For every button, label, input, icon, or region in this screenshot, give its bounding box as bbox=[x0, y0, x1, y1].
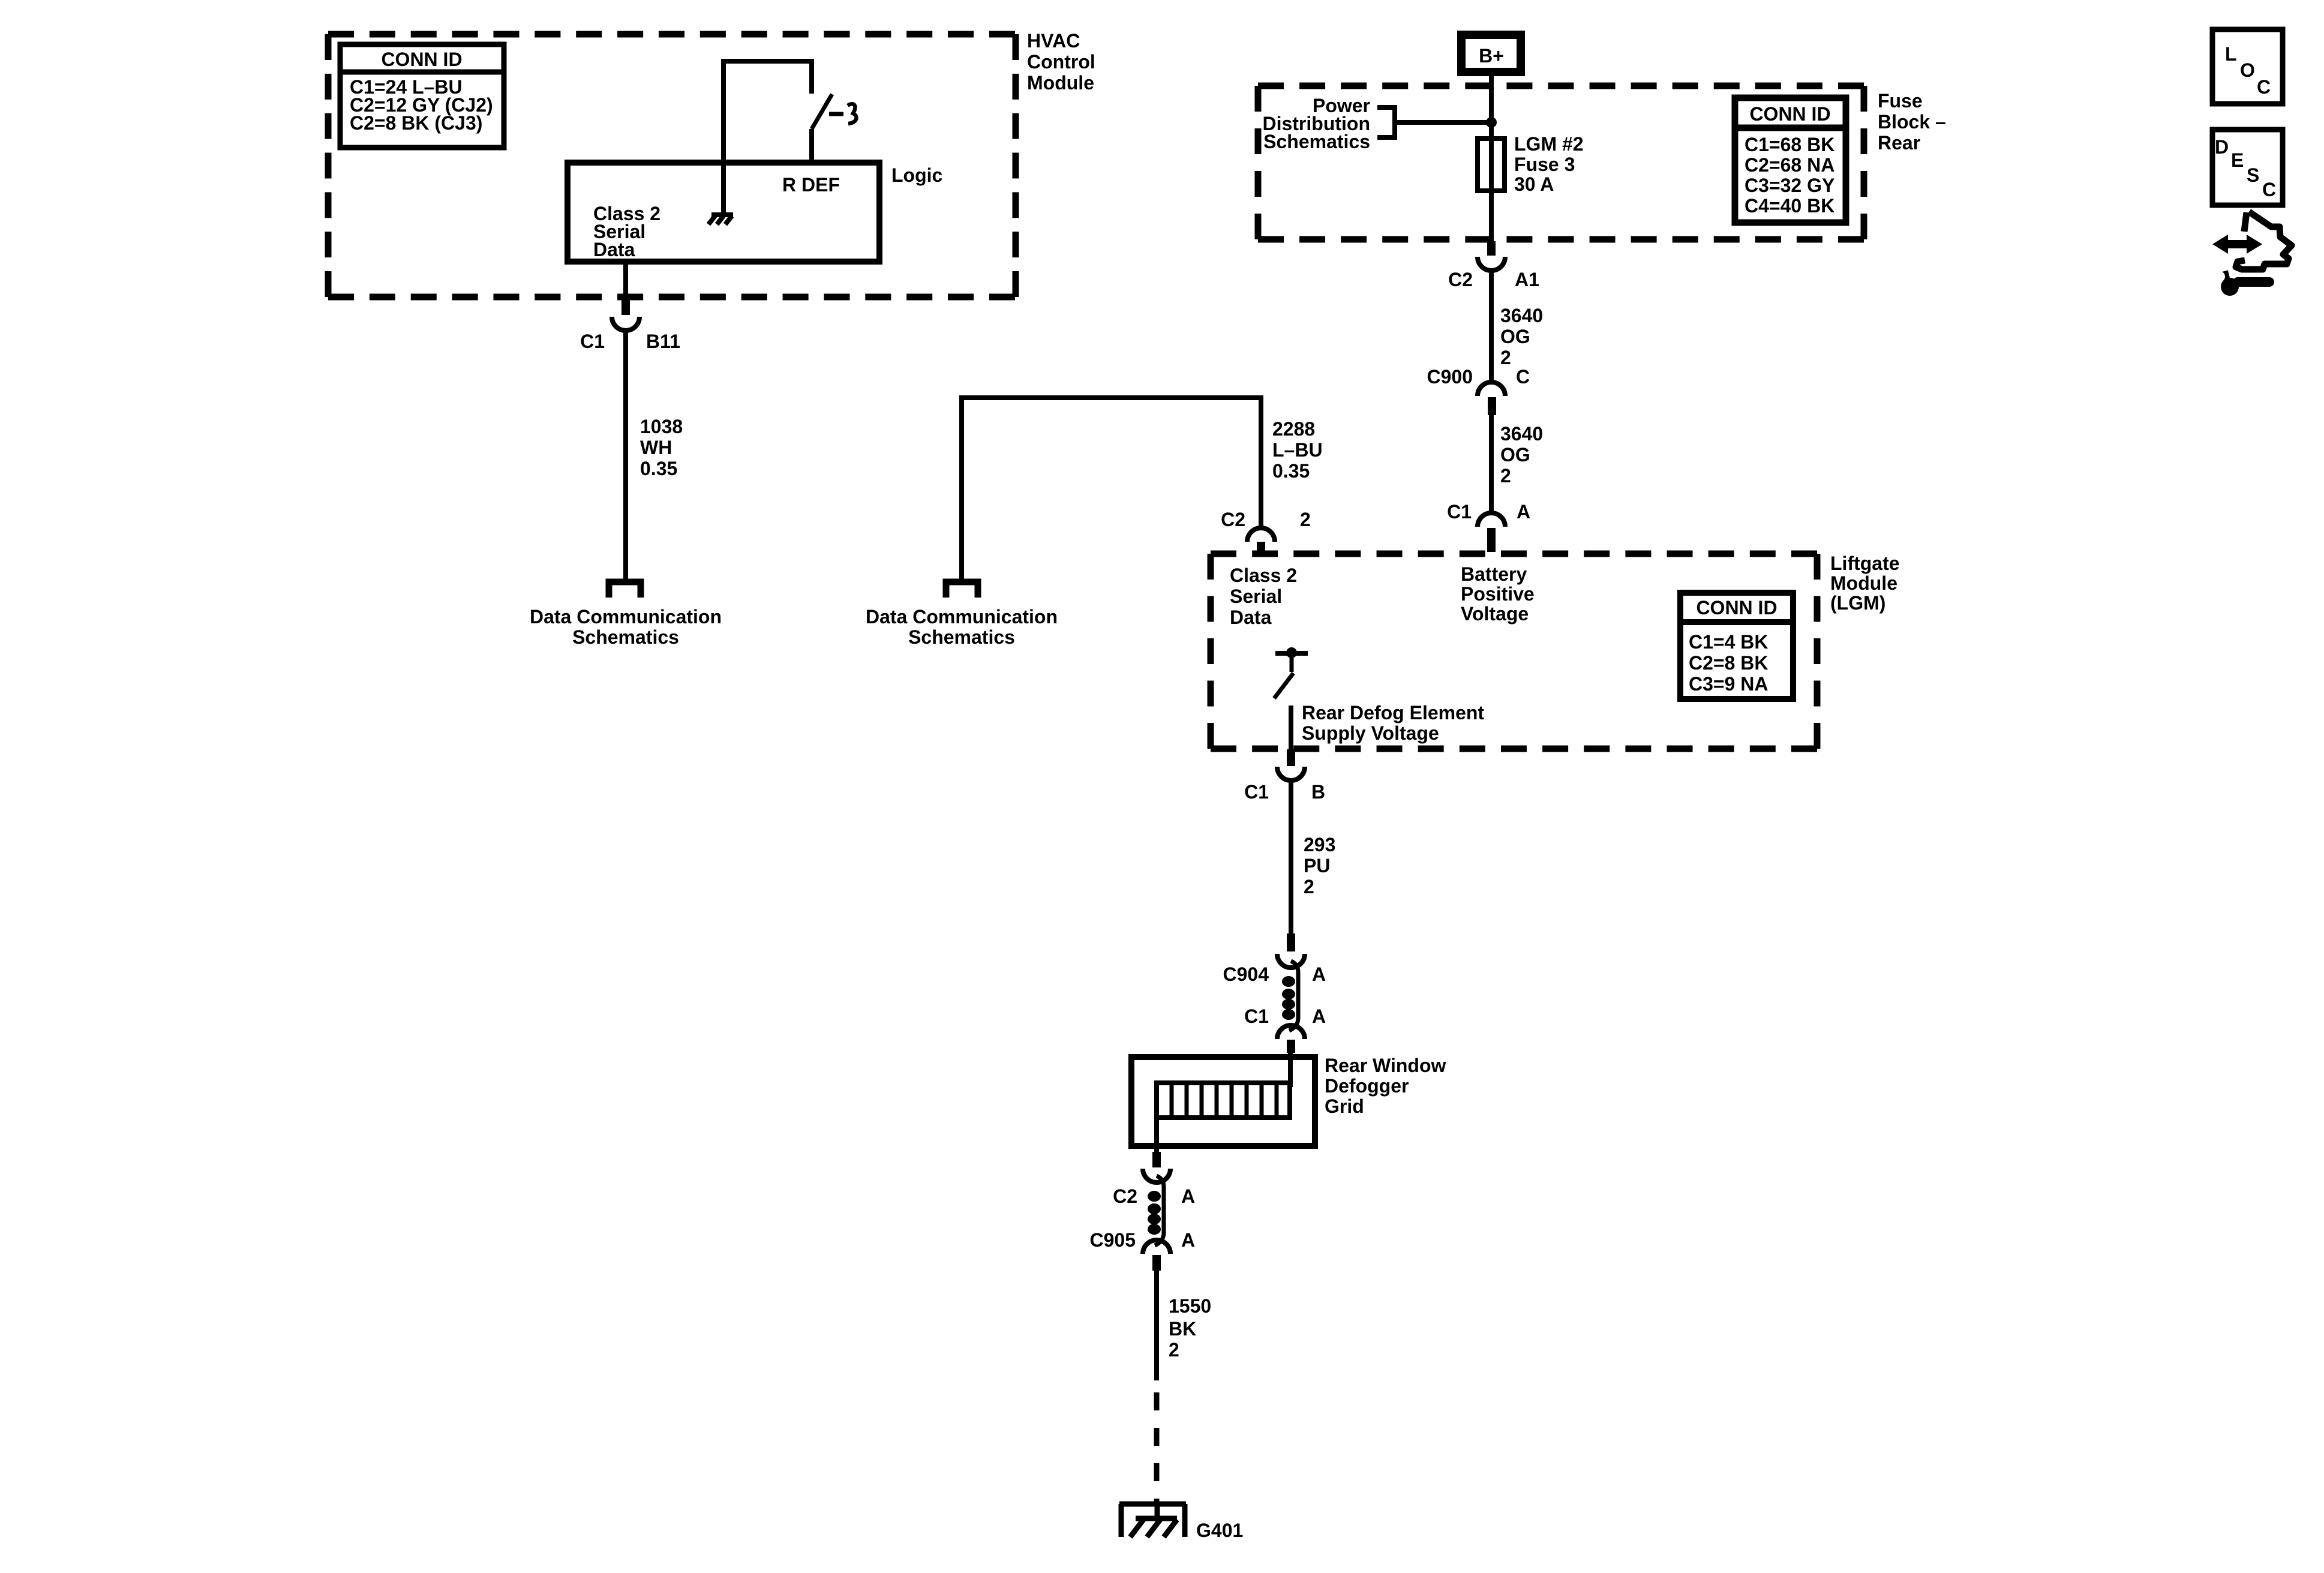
svg-text:C1=68 BK: C1=68 BK bbox=[1744, 134, 1834, 155]
wire 3640 OG 2 (lower) bbox=[1489, 415, 1494, 514]
svg-text:C1: C1 bbox=[580, 331, 605, 352]
label C1 bbox=[1244, 781, 1269, 803]
svg-text:C: C bbox=[1516, 366, 1530, 388]
svg-text:O: O bbox=[2240, 59, 2255, 81]
svg-text:C904: C904 bbox=[1223, 963, 1269, 985]
svg-text:3640: 3640 bbox=[1500, 305, 1543, 326]
wire 1038 WH 0.35 bbox=[623, 331, 628, 579]
label B11 bbox=[646, 331, 680, 352]
connector C1 B11 (pin + cup) bbox=[612, 300, 639, 331]
svg-text:G401: G401 bbox=[1196, 1520, 1243, 1541]
svg-text:C2=68 NA: C2=68 NA bbox=[1744, 154, 1834, 176]
label A bbox=[1517, 501, 1530, 523]
svg-text:0.35: 0.35 bbox=[1272, 460, 1310, 482]
svg-text:L–BU: L–BU bbox=[1272, 439, 1323, 461]
svg-text:E: E bbox=[2231, 149, 2244, 171]
svg-text:Module: Module bbox=[1027, 72, 1094, 94]
R DEF label bbox=[782, 174, 840, 196]
relay switch (liftgate internal) bbox=[1274, 653, 1308, 698]
dashed ground wire bbox=[1154, 1392, 1160, 1504]
Liftgate Module dashed box bbox=[1211, 554, 1817, 749]
svg-text:B11: B11 bbox=[646, 331, 680, 352]
fuse label bbox=[1514, 133, 1584, 195]
svg-text:C2=8 BK: C2=8 BK bbox=[1689, 652, 1768, 674]
label C2 bbox=[1448, 269, 1473, 290]
svg-text:3640: 3640 bbox=[1500, 423, 1543, 445]
connector C2 A1 (pin + cup) bbox=[1478, 241, 1505, 271]
svg-text:Schematics: Schematics bbox=[908, 626, 1015, 648]
wire 1550 BK 2 bbox=[1154, 1271, 1159, 1380]
connector C1 A (dome + pin into liftgate) bbox=[1478, 513, 1505, 552]
wire from logic box to connector C1 B11 bbox=[623, 262, 628, 301]
svg-text:B+: B+ bbox=[1479, 45, 1504, 67]
svg-text:2: 2 bbox=[1304, 876, 1314, 897]
wire out of grid element bbox=[1154, 1118, 1159, 1152]
Rear Defog Element Supply Voltage label bbox=[1302, 702, 1484, 744]
fuse LGM #2 Fuse 3 30 A bbox=[1478, 139, 1505, 191]
component view icon (part outline) bbox=[2236, 212, 2292, 269]
label 2 (pin) bbox=[1300, 509, 1311, 530]
wire loop from logic box to switch contact bbox=[723, 61, 812, 163]
svg-text:CONN ID: CONN ID bbox=[381, 49, 462, 70]
svg-text:1038: 1038 bbox=[640, 416, 683, 437]
svg-text:Data: Data bbox=[1230, 607, 1272, 628]
connector C904 A / C1 A with harness coil bbox=[1277, 933, 1305, 1053]
svg-text:Supply Voltage: Supply Voltage bbox=[1302, 722, 1439, 744]
svg-text:C2: C2 bbox=[1221, 509, 1245, 530]
LOC reference box bbox=[2212, 29, 2283, 104]
svg-text:R DEF: R DEF bbox=[782, 174, 840, 196]
CONN ID table (liftgate) bbox=[1680, 593, 1793, 699]
wire 2288 L-BU 0.35 bbox=[962, 398, 1261, 579]
wire 3640 OG 2 (upper) bbox=[1489, 271, 1494, 383]
Battery Positive Voltage label bbox=[1461, 563, 1535, 625]
svg-text:B: B bbox=[1311, 781, 1325, 803]
B+ battery feed box bbox=[1461, 35, 1521, 72]
Fuse Block - Rear label bbox=[1878, 90, 1946, 154]
ground G401 bbox=[1119, 1504, 1186, 1537]
Rear Window Defogger Grid label bbox=[1325, 1055, 1446, 1117]
svg-text:OG: OG bbox=[1500, 326, 1530, 347]
HVAC Control Module dashed box bbox=[328, 34, 1016, 297]
Fuse Block Rear dashed box bbox=[1258, 86, 1864, 239]
svg-text:(LGM): (LGM) bbox=[1830, 592, 1885, 614]
Class 2 Serial Data label (liftgate) bbox=[1230, 565, 1297, 628]
svg-text:Rear Defog Element: Rear Defog Element bbox=[1302, 702, 1484, 724]
svg-text:Fuse: Fuse bbox=[1878, 90, 1923, 112]
svg-text:Serial: Serial bbox=[1230, 586, 1282, 607]
svg-text:A: A bbox=[1517, 501, 1530, 523]
label C904 bbox=[1223, 963, 1269, 985]
svg-text:C1: C1 bbox=[1447, 501, 1472, 523]
svg-text:Battery: Battery bbox=[1461, 563, 1527, 585]
svg-text:Schematics: Schematics bbox=[1263, 131, 1370, 152]
DESC reference box bbox=[2212, 130, 2283, 205]
label G401 bbox=[1196, 1520, 1243, 1541]
junction node bbox=[1486, 117, 1497, 128]
wire from bracket to B+ feed bbox=[1395, 120, 1491, 125]
svg-text:C3=9 NA: C3=9 NA bbox=[1689, 673, 1768, 695]
Rear Window Defogger Grid box bbox=[1131, 1057, 1315, 1146]
svg-text:Voltage: Voltage bbox=[1461, 603, 1529, 625]
label C905 bbox=[1090, 1229, 1136, 1251]
svg-text:S: S bbox=[2247, 164, 2259, 186]
svg-text:C1=4 BK: C1=4 BK bbox=[1689, 631, 1768, 653]
svg-text:Grid: Grid bbox=[1325, 1095, 1364, 1117]
label C1 bbox=[1447, 501, 1472, 523]
svg-text:C: C bbox=[2257, 76, 2271, 98]
svg-text:C2: C2 bbox=[1113, 1185, 1137, 1207]
svg-text:Logic: Logic bbox=[891, 164, 942, 186]
svg-text:C2: C2 bbox=[1448, 269, 1473, 290]
svg-text:Liftgate: Liftgate bbox=[1830, 553, 1900, 574]
label C2 bbox=[1113, 1185, 1137, 1207]
logic box outline bbox=[568, 163, 879, 262]
CONN ID table (fuse block) bbox=[1735, 98, 1846, 223]
junction dot on switch bar bbox=[1286, 647, 1297, 658]
svg-text:Data Communication: Data Communication bbox=[530, 606, 722, 628]
svg-text:CONN ID: CONN ID bbox=[1749, 103, 1830, 125]
component view icon (double arrow) bbox=[2212, 235, 2262, 254]
svg-text:C1: C1 bbox=[1244, 781, 1269, 803]
svg-text:Rear Window: Rear Window bbox=[1325, 1055, 1446, 1076]
label A (C905) bbox=[1181, 1229, 1195, 1251]
svg-text:HVAC: HVAC bbox=[1027, 30, 1080, 52]
ground (HVAC internal) bbox=[708, 215, 733, 224]
label C1 bbox=[1244, 1005, 1269, 1027]
off-page terminal (left data link) bbox=[609, 582, 641, 598]
svg-text:A: A bbox=[1312, 963, 1326, 985]
svg-text:Positive: Positive bbox=[1461, 583, 1535, 605]
bracket (power distribution) bbox=[1377, 107, 1395, 137]
switch lower contact bbox=[809, 129, 814, 163]
switch position mark -3 bbox=[829, 104, 857, 124]
wire label 293 PU 2 bbox=[1304, 834, 1335, 897]
connector C2 A / C905 A with harness coil bbox=[1143, 1152, 1170, 1271]
CONN ID table (HVAC) bbox=[340, 44, 504, 148]
svg-text:Class 2: Class 2 bbox=[1230, 565, 1297, 586]
svg-text:Module: Module bbox=[1830, 572, 1897, 594]
svg-text:Fuse 3: Fuse 3 bbox=[1514, 154, 1575, 175]
label C2 (liftgate pin 2) bbox=[1221, 509, 1245, 530]
svg-text:C4=40 BK: C4=40 BK bbox=[1744, 195, 1834, 217]
wire 293 PU 2 bbox=[1289, 781, 1293, 935]
Power Distribution Schematics label bbox=[1262, 95, 1370, 152]
svg-text:PU: PU bbox=[1304, 855, 1330, 876]
wire label 3640 OG 2 bbox=[1500, 305, 1543, 368]
svg-text:WH: WH bbox=[640, 437, 672, 458]
label A (C1) bbox=[1312, 1005, 1326, 1027]
svg-text:2: 2 bbox=[1300, 509, 1311, 530]
svg-text:A: A bbox=[1181, 1185, 1195, 1207]
connector C900 C (dome + pin) bbox=[1478, 382, 1505, 415]
svg-text:30 A: 30 A bbox=[1514, 173, 1554, 195]
svg-text:L: L bbox=[2225, 43, 2237, 65]
svg-text:Data Communication: Data Communication bbox=[866, 606, 1058, 628]
label A1 bbox=[1515, 269, 1539, 290]
wire label 1038 WH 0.35 bbox=[640, 416, 683, 479]
Liftgate Module (LGM) label bbox=[1830, 553, 1900, 614]
defogger grid element (hatched) bbox=[1157, 1083, 1290, 1118]
Data Communication Schematics label (left) bbox=[530, 606, 722, 648]
wire label 2288 L-BU 0.35 bbox=[1272, 418, 1323, 482]
svg-text:Defogger: Defogger bbox=[1325, 1075, 1409, 1097]
svg-text:C1: C1 bbox=[1244, 1005, 1269, 1027]
svg-text:1550: 1550 bbox=[1169, 1295, 1211, 1317]
Logic label bbox=[891, 164, 942, 186]
svg-text:Schematics: Schematics bbox=[572, 626, 679, 648]
svg-text:LGM #2: LGM #2 bbox=[1514, 133, 1584, 155]
svg-text:Control: Control bbox=[1027, 51, 1095, 73]
svg-text:Rear: Rear bbox=[1878, 132, 1920, 154]
wire from switch to connector C1 B bbox=[1289, 706, 1293, 750]
connector C1 B (pin + cup) bbox=[1277, 749, 1305, 781]
wire into grid element bbox=[1288, 1053, 1293, 1087]
svg-text:293: 293 bbox=[1304, 834, 1335, 855]
off-page terminal (middle data link) bbox=[946, 582, 978, 598]
svg-text:Data: Data bbox=[593, 239, 635, 260]
svg-text:2: 2 bbox=[1500, 465, 1511, 487]
label C1 bbox=[580, 331, 605, 352]
svg-text:A1: A1 bbox=[1515, 269, 1539, 290]
svg-text:BK: BK bbox=[1169, 1318, 1196, 1340]
label B bbox=[1311, 781, 1325, 803]
Class 2 Serial Data label (HVAC) bbox=[593, 203, 660, 260]
svg-text:Block –: Block – bbox=[1878, 111, 1946, 133]
label C bbox=[1516, 366, 1530, 388]
svg-text:OG: OG bbox=[1500, 444, 1530, 466]
connector C2 pin 2 (dome + pin) bbox=[1247, 528, 1275, 557]
HVAC Control Module label bbox=[1027, 30, 1095, 94]
svg-text:CONN ID: CONN ID bbox=[1696, 597, 1777, 619]
svg-text:C: C bbox=[2262, 179, 2276, 200]
label A (C904) bbox=[1312, 963, 1326, 985]
svg-text:2: 2 bbox=[1500, 347, 1511, 368]
component view icon (wrench) bbox=[2214, 271, 2269, 296]
label C900 bbox=[1427, 366, 1473, 388]
wire label 3640 OG 2 (lower) bbox=[1500, 423, 1543, 487]
label A (C2) bbox=[1181, 1185, 1195, 1207]
wire B+ through fuse bbox=[1489, 76, 1494, 241]
svg-text:2: 2 bbox=[1169, 1339, 1179, 1361]
R DEF switch blade bbox=[812, 94, 832, 129]
svg-text:A: A bbox=[1181, 1229, 1195, 1251]
svg-text:0.35: 0.35 bbox=[640, 458, 677, 479]
svg-text:D: D bbox=[2215, 136, 2229, 158]
svg-text:C905: C905 bbox=[1090, 1229, 1136, 1251]
svg-text:A: A bbox=[1312, 1005, 1326, 1027]
wire label 1550 BK 2 bbox=[1169, 1295, 1211, 1361]
svg-text:C900: C900 bbox=[1427, 366, 1473, 388]
svg-text:C2=8 BK (CJ3): C2=8 BK (CJ3) bbox=[350, 112, 482, 134]
svg-text:2288: 2288 bbox=[1272, 418, 1315, 440]
wire to internal ground bbox=[721, 163, 726, 214]
svg-text:C3=32 GY: C3=32 GY bbox=[1744, 175, 1834, 196]
Data Communication Schematics label (middle) bbox=[866, 606, 1058, 648]
